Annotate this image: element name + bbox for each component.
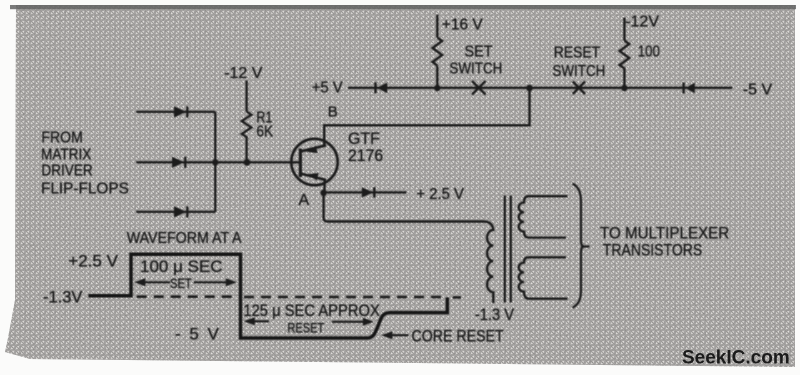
svg-text:SWITCH: SWITCH	[449, 60, 502, 77]
svg-text:-1.3 V: -1.3 V	[475, 306, 515, 324]
svg-text:SWITCH: SWITCH	[552, 63, 605, 80]
svg-text:B: B	[328, 104, 338, 121]
svg-text:RESET: RESET	[287, 320, 324, 336]
svg-text:6K: 6K	[256, 122, 273, 140]
svg-text:DRIVER: DRIVER	[41, 163, 93, 180]
svg-text:A: A	[299, 192, 310, 209]
svg-text:RESET: RESET	[554, 44, 600, 62]
svg-text:TRANSISTORS: TRANSISTORS	[603, 242, 702, 260]
svg-text:-12 V: -12 V	[224, 65, 263, 82]
svg-text:+2.5 V: +2.5 V	[68, 251, 118, 270]
svg-text:100: 100	[638, 44, 660, 61]
svg-text:2176: 2176	[348, 147, 383, 166]
svg-text:SeekIC.com: SeekIC.com	[682, 348, 790, 369]
svg-text:- 5 V: - 5 V	[175, 325, 221, 344]
svg-text:FLIP-FLOPS: FLIP-FLOPS	[41, 180, 129, 197]
svg-text:FROM: FROM	[41, 129, 82, 147]
svg-text:+16 V: +16 V	[442, 16, 483, 33]
svg-text:+5 V: +5 V	[312, 79, 344, 97]
svg-text:SET: SET	[465, 43, 493, 61]
svg-text:WAVEFORM AT A: WAVEFORM AT A	[127, 229, 243, 247]
svg-text:+ 2.5 V: + 2.5 V	[416, 185, 464, 203]
svg-text:125 μ SEC APPROX: 125 μ SEC APPROX	[243, 302, 380, 320]
svg-text:MATRIX: MATRIX	[41, 147, 91, 164]
svg-text:CORE RESET: CORE RESET	[412, 327, 505, 345]
svg-text:TO MULTIPLEXER: TO MULTIPLEXER	[600, 225, 729, 243]
svg-text:SET: SET	[170, 276, 192, 291]
svg-text:GTF: GTF	[348, 130, 380, 149]
svg-text:100 μ SEC: 100 μ SEC	[140, 257, 223, 276]
svg-text:-1.3V: -1.3V	[43, 289, 82, 307]
svg-text:-5 V: -5 V	[743, 81, 773, 98]
svg-text:-12V: -12V	[625, 14, 659, 31]
